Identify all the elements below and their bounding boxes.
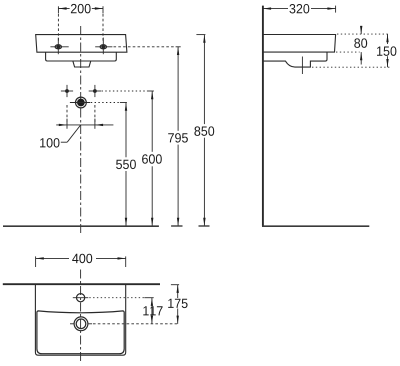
drain centerline side view	[301, 57, 303, 75]
basin front view lower tier	[46, 52, 117, 61]
wall line bottom view	[3, 283, 160, 285]
faucet hole right (front)	[95, 38, 112, 55]
dimension 100	[40, 119, 113, 148]
dotted boss bottom to 150	[312, 66, 390, 68]
floor line side view	[262, 225, 369, 227]
dotted faucet hole to 117 dim	[89, 297, 144, 299]
drain front view	[70, 97, 90, 108]
dashed extension bolts down to 100 dim	[66, 105, 68, 124]
dimension 80	[354, 26, 367, 65]
dimension 850	[194, 35, 214, 226]
dotted link bolts to 600 dim	[102, 90, 147, 92]
dimension 795	[168, 47, 188, 226]
dotted link drain to 550 dim	[91, 102, 120, 104]
basin bottom view inner bowl	[37, 311, 124, 354]
dimension 400	[36, 254, 126, 267]
basin front view body	[36, 35, 127, 53]
dashed drain to 175 dim	[93, 323, 179, 325]
base tick under 795 arrow	[171, 225, 182, 227]
dimension 600	[142, 91, 162, 226]
mounting bolt right (front)	[89, 85, 101, 97]
basin side view slab	[263, 35, 336, 53]
faucet hole left (front)	[50, 38, 68, 55]
dimension 150	[377, 34, 396, 67]
dimension 117	[143, 298, 162, 324]
floor line front view	[3, 225, 159, 227]
dashed link faucet holes to 795 dim	[114, 46, 176, 48]
basin front view drain boss	[73, 61, 91, 67]
dotted slab bottom to 80	[336, 51, 360, 53]
dimension 550	[116, 103, 136, 227]
mounting bolt left (front)	[61, 85, 73, 97]
centerline bottom view	[80, 270, 82, 363]
dimension 200	[58, 4, 103, 42]
drain bottom view	[70, 317, 92, 331]
basin side view underside and drain boss	[263, 52, 327, 67]
faucet hole bottom view	[73, 294, 89, 302]
dimension 175	[168, 285, 187, 324]
dimension 320	[263, 4, 336, 14]
base tick under 850 arrow	[199, 225, 210, 227]
centerline front view	[80, 26, 82, 233]
basin bottom view outer rim	[35, 284, 125, 355]
dotted top edge to 150	[337, 33, 390, 35]
wall line side view	[262, 6, 264, 227]
